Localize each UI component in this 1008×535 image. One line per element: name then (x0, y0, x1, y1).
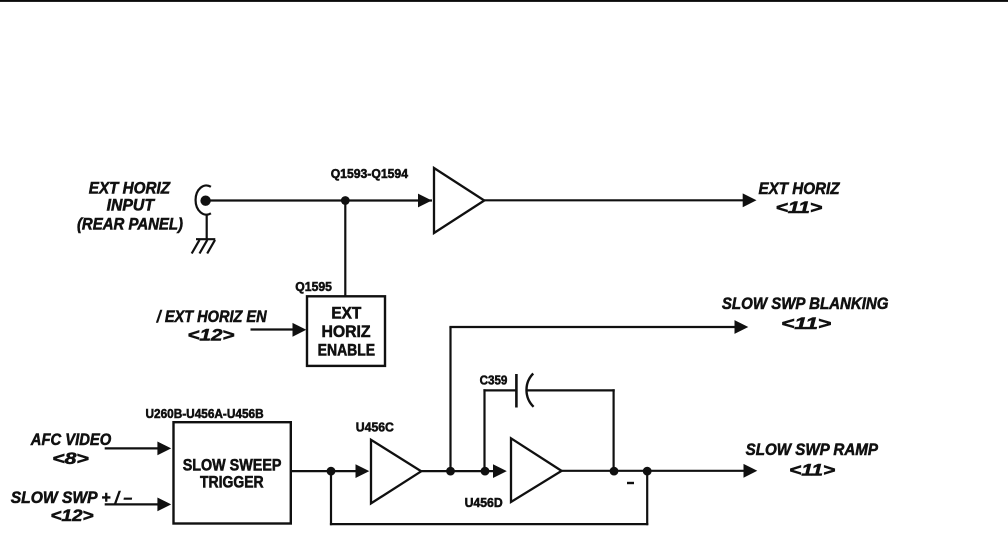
svg-text:ENABLE: ENABLE (318, 342, 376, 360)
svg-text:SLOW SWP RAMP: SLOW SWP RAMP (746, 441, 879, 459)
svg-text:<11>: <11> (789, 461, 835, 480)
svg-text:AFC VIDEO: AFC VIDEO (30, 431, 112, 449)
svg-text:EXT: EXT (331, 305, 361, 323)
svg-text:EXT HORIZ: EXT HORIZ (758, 180, 840, 198)
svg-text:Q1593-Q1594: Q1593-Q1594 (331, 166, 409, 181)
svg-text:SLOW SWP + / –: SLOW SWP + / – (11, 489, 133, 507)
svg-text:U456D: U456D (465, 495, 503, 510)
svg-text:<12>: <12> (51, 506, 94, 525)
svg-text:SLOW SWEEP: SLOW SWEEP (183, 457, 282, 475)
svg-text:TRIGGER: TRIGGER (200, 473, 264, 491)
svg-text:/ EXT HORIZ EN: / EXT HORIZ EN (156, 308, 267, 326)
svg-text:INPUT: INPUT (107, 196, 156, 214)
svg-text:C359: C359 (480, 372, 508, 387)
svg-text:(REAR PANEL): (REAR PANEL) (77, 216, 183, 234)
svg-text:Q1595: Q1595 (295, 279, 332, 294)
svg-text:SLOW SWP BLANKING: SLOW SWP BLANKING (722, 295, 889, 313)
svg-text:EXT HORIZ: EXT HORIZ (89, 180, 171, 198)
svg-text:U456C: U456C (356, 420, 395, 435)
svg-text:HORIZ: HORIZ (321, 323, 370, 341)
svg-text:<11>: <11> (776, 198, 823, 217)
svg-text:U260B-U456A-U456B: U260B-U456A-U456B (146, 406, 264, 421)
svg-text:<11>: <11> (781, 314, 831, 333)
svg-text:<8>: <8> (52, 449, 89, 468)
svg-text:<12>: <12> (188, 326, 235, 345)
